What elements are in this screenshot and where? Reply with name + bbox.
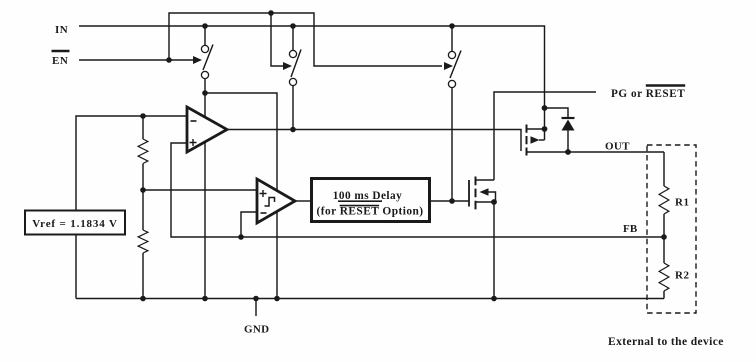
svg-text:EN: EN [52, 55, 68, 67]
node junction FB at divider [661, 234, 667, 240]
wire IN rail: from IN pin right, then down to pass FET source [79, 26, 545, 140]
box external divider (dashed) [647, 145, 696, 313]
node junction S2 on U1 output [290, 127, 296, 133]
box Vref reference [25, 211, 125, 235]
wire NMOS drain up to PG line [494, 92, 596, 180]
svg-text:FB: FB [623, 223, 638, 235]
wire delay output to NMOS gate [430, 200, 470, 202]
node junction U1 rail at bus [202, 296, 208, 302]
svg-text:R1: R1 [675, 197, 689, 209]
op-amp U1 error amplifier [187, 107, 227, 152]
diode D1 body diode [562, 118, 575, 152]
switch S1 (EN controlled) [193, 45, 213, 79]
transistor Q1 PMOS pass element [527, 125, 545, 156]
wire divider mid to comparator + input [143, 189, 257, 191]
svg-text:OUT: OUT [605, 141, 630, 153]
node junction S3 at NMOS gate line [449, 198, 455, 204]
wire U1 + input from FB line [171, 143, 664, 237]
wire EN riser and top distribution to switches 2,3 [169, 13, 442, 66]
switch S2 (EN controlled) [283, 50, 301, 86]
node junction GND tap [253, 296, 259, 302]
op-amp U2 comparator with hysteresis [257, 179, 295, 223]
svg-text:Vref = 1.1834 V: Vref = 1.1834 V [32, 218, 118, 230]
wire EN branch to switch S2 [271, 13, 283, 66]
wire IN to diode cathode [545, 108, 569, 118]
svg-text:IN: IN [55, 24, 68, 36]
wire U1 output to PMOS gate [227, 130, 521, 152]
wire left reference rail [76, 116, 187, 299]
wire OUT line from PMOS drain to external divider [527, 151, 665, 153]
node junction NMOS source at bus [491, 296, 497, 302]
node junction IN at S1 [202, 23, 208, 29]
wire S2 output down to error amp output line [292, 26, 294, 51]
wire ground bus [76, 298, 664, 300]
wire comparator supply rail down to ground bus [205, 93, 277, 299]
wire S3 output down to delay/NMOS gate line [451, 26, 453, 52]
node junction divider top [140, 113, 146, 119]
node junction lower divider at bus [140, 296, 146, 302]
svg-text:R2: R2 [675, 270, 689, 282]
wire OUT down to R1 [663, 152, 665, 186]
transistor Q2 NMOS open-drain PG [469, 177, 497, 299]
svg-text:(for RESET Option): (for RESET Option) [316, 206, 423, 218]
svg-text:GND: GND [244, 324, 269, 336]
node junction divider mid [140, 187, 146, 193]
node EN label (with overline) [52, 51, 70, 67]
resistor R2 [659, 237, 669, 299]
node junction top EN wire [268, 10, 274, 16]
node junction diode anode at OUT [565, 149, 571, 155]
node junction IN at S2 [290, 23, 296, 29]
wire comparator output to delay box [295, 200, 310, 202]
node junction PMOS source/body at IN [542, 105, 548, 111]
wire GND stub [255, 299, 257, 317]
wire EN input [79, 59, 193, 61]
node junction IN at S3 [449, 23, 455, 29]
node junction S1 output [202, 90, 208, 96]
node PG or RESET label (with overline on RESET) [611, 86, 685, 101]
svg-text:100 ms Delay: 100 ms Delay [333, 190, 402, 202]
resistor lower divider [138, 190, 148, 299]
switch S3 (EN controlled) [444, 51, 461, 88]
node junction comparator rail at bus [274, 296, 280, 302]
resistor upper divider [138, 116, 148, 190]
svg-text:PG or RESET: PG or RESET [611, 88, 685, 100]
svg-text:External to the device: External to the device [608, 336, 724, 348]
node junction FB at comparator [238, 234, 244, 240]
wire U1 supply rail through amplifier down to ground bus [204, 26, 206, 46]
box 100 ms delay [312, 179, 430, 222]
wire comparator - input riser from FB [241, 212, 257, 237]
resistor R1 [659, 186, 669, 237]
node junction EN riser [166, 57, 172, 63]
